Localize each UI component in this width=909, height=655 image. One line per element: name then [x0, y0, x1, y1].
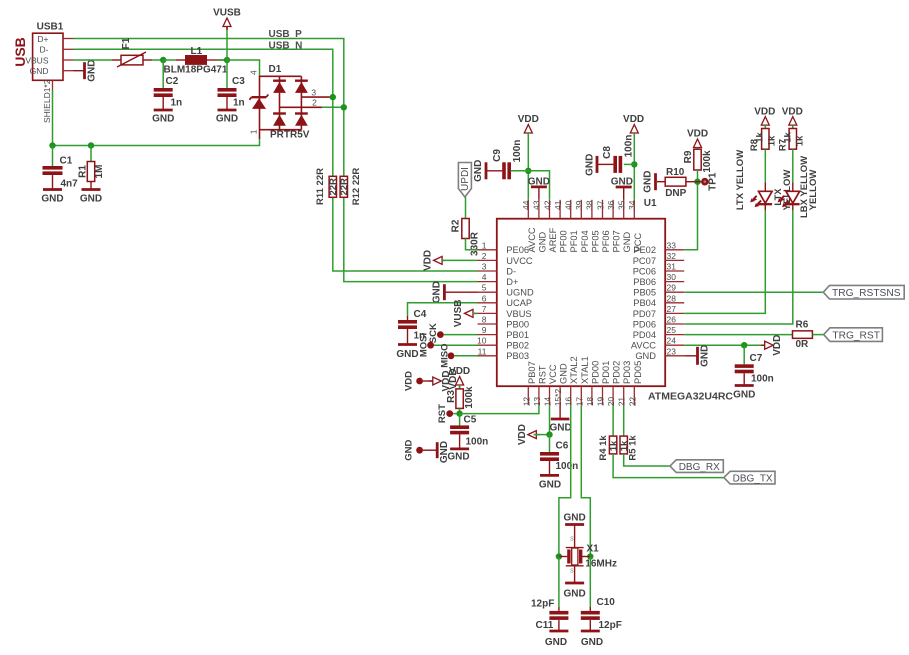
wire MCU pin29 PB05 to TRG_RSTSNS	[684, 291, 823, 293]
svg-text:1k: 1k	[783, 132, 794, 143]
svg-text:GND: GND	[545, 637, 567, 648]
svg-text:2: 2	[312, 97, 317, 107]
svg-text:GND: GND	[539, 480, 561, 491]
svg-text:6: 6	[482, 293, 487, 303]
svg-text:20: 20	[606, 397, 616, 407]
supply source VDD stub with circle	[416, 378, 423, 385]
svg-text:R9: R9	[683, 150, 694, 163]
svg-text:34: 34	[627, 200, 637, 210]
svg-text:GND: GND	[80, 194, 102, 205]
svg-text:GND: GND	[585, 154, 596, 176]
svg-text:BLM18PG471: BLM18PG471	[164, 65, 228, 76]
svg-text:USB1: USB1	[37, 22, 64, 33]
microcontroller U1 ATMEGA32U4RC body	[497, 219, 665, 387]
svg-text:PD03: PD03	[622, 361, 632, 384]
ground left of C8	[596, 156, 599, 173]
svg-text:PD02: PD02	[612, 361, 622, 384]
svg-text:UGND: UGND	[506, 288, 534, 298]
ground below crystal shield	[574, 566, 576, 583]
svg-text:R5 1k: R5 1k	[628, 435, 639, 461]
pin GND of USB1	[63, 70, 74, 72]
svg-text:8: 8	[482, 315, 487, 325]
net stub MISO at MCU pin11	[448, 352, 455, 359]
svg-text:100n: 100n	[512, 140, 523, 163]
svg-text:VDD: VDD	[423, 250, 434, 271]
svg-text:32: 32	[667, 251, 677, 261]
svg-text:GND: GND	[559, 363, 569, 384]
wire R4 to DBG_TX	[613, 454, 724, 478]
wire R9 to MCU pin33 PE02	[684, 170, 697, 250]
ground below C2	[154, 109, 173, 112]
resistor R5 1k	[620, 436, 627, 454]
capacitor C7 100n	[743, 345, 745, 364]
svg-text:R10: R10	[666, 167, 685, 178]
ground below C1	[43, 188, 62, 191]
svg-text:YELLOW: YELLOW	[808, 170, 819, 211]
svg-text:GND: GND	[87, 60, 98, 82]
supply VDD at MCU pin2 UVCC	[442, 259, 446, 261]
wire MCU pin24 AVCC to VDD arrow	[684, 344, 764, 346]
svg-text:AVCC: AVCC	[631, 341, 656, 351]
svg-text:PF05: PF05	[590, 230, 600, 252]
connector USB1 body	[33, 33, 63, 80]
svg-text:38: 38	[585, 200, 595, 210]
svg-text:41: 41	[553, 200, 563, 210]
svg-text:PF06: PF06	[601, 230, 611, 252]
svg-text:X1: X1	[587, 544, 600, 555]
resistor R2 330R	[462, 219, 469, 239]
ground at MCU pin23	[684, 355, 697, 357]
svg-text:USB_P: USB_P	[269, 29, 303, 40]
ground below C6	[540, 474, 559, 477]
svg-text:100n: 100n	[624, 135, 635, 158]
capacitor C8 100n	[613, 156, 617, 173]
capacitor C10 12pF	[589, 557, 591, 608]
svg-text:PB02: PB02	[506, 341, 529, 351]
svg-text:GND: GND	[643, 171, 654, 193]
svg-text:1: 1	[248, 129, 258, 134]
svg-text:7: 7	[482, 304, 487, 314]
svg-text:22: 22	[627, 397, 637, 407]
svg-text:R11 22R: R11 22R	[315, 168, 326, 205]
svg-text:28: 28	[667, 293, 677, 303]
ground below C7	[735, 384, 754, 387]
svg-text:VUSB: VUSB	[213, 8, 241, 19]
svg-text:PB05: PB05	[633, 288, 656, 298]
wire VDD to MCU pin34	[633, 133, 635, 200]
svg-text:PD06: PD06	[633, 319, 656, 329]
svg-text:XTAL1: XTAL1	[580, 356, 590, 384]
ground below C11	[549, 630, 568, 633]
svg-text:C8: C8	[602, 146, 613, 159]
svg-text:L1: L1	[191, 46, 203, 57]
svg-text:AREF: AREF	[548, 227, 558, 252]
test point TP1	[698, 181, 702, 183]
svg-text:C5: C5	[464, 415, 477, 426]
net stub RST	[446, 410, 453, 417]
svg-text:R1: R1	[78, 165, 89, 178]
svg-text:12pF: 12pF	[531, 599, 554, 610]
svg-text:TP1: TP1	[708, 172, 719, 191]
svg-text:15*2: 15*2	[553, 389, 563, 407]
MCU right pins 33-23 with names	[631, 240, 684, 361]
svg-text:16: 16	[564, 397, 574, 407]
svg-text:GND: GND	[622, 232, 632, 253]
svg-text:PB06: PB06	[633, 277, 656, 287]
wire junction to MCU pin42 AREF	[528, 171, 549, 200]
wire RST junction to MCU pin13	[460, 405, 539, 413]
svg-text:SCK: SCK	[428, 323, 439, 343]
ground below C4	[398, 343, 417, 346]
svg-text:GND: GND	[41, 194, 63, 205]
svg-text:10: 10	[477, 336, 487, 346]
wire L1 to VUSB junction	[207, 59, 227, 61]
svg-text:GND: GND	[447, 452, 469, 463]
wire R5 to DBG_RX	[624, 454, 670, 466]
svg-text:U1: U1	[644, 198, 657, 209]
junction at C6	[546, 431, 552, 437]
resistor R9 100k	[697, 148, 699, 150]
junction at VUSB/C3	[224, 57, 230, 63]
svg-text:35: 35	[617, 200, 627, 210]
capacitor C6 100n	[549, 435, 551, 452]
ground above MCU pin35	[623, 187, 625, 200]
svg-text:42: 42	[542, 200, 552, 210]
svg-text:GND: GND	[396, 349, 418, 360]
svg-text:4: 4	[482, 272, 487, 282]
svg-text:0R: 0R	[796, 339, 810, 350]
svg-text:PC06: PC06	[633, 266, 656, 276]
ground at MCU pin5 UGND	[444, 291, 477, 293]
resistor R6 0R	[793, 331, 813, 339]
ground left of C9	[485, 162, 488, 179]
svg-text:30: 30	[667, 272, 677, 282]
junction RST	[456, 410, 462, 416]
svg-text:22R: 22R	[339, 178, 350, 196]
net flag DBG_RX	[670, 460, 723, 473]
net stub SCK at MCU pin9	[437, 331, 444, 338]
svg-text:PF01: PF01	[569, 230, 579, 252]
svg-text:C10: C10	[597, 597, 616, 608]
junction crystal left	[556, 553, 562, 559]
svg-text:26: 26	[667, 315, 677, 325]
svg-text:USB_N: USB_N	[269, 40, 303, 51]
pin D- of USB1	[63, 48, 74, 50]
svg-text:PE06: PE06	[506, 245, 529, 255]
svg-text:25: 25	[667, 325, 677, 335]
svg-text:29: 29	[667, 283, 677, 293]
svg-text:VDD: VDD	[772, 335, 783, 356]
svg-text:D+: D+	[506, 277, 518, 287]
junction D1 pin2 / USB_P	[341, 104, 347, 110]
net flag UPDI	[458, 163, 471, 198]
svg-text:VCC: VCC	[548, 364, 558, 384]
svg-text:18: 18	[585, 397, 595, 407]
svg-text:GND: GND	[404, 440, 415, 461]
capacitor C9 100n	[502, 162, 506, 179]
svg-text:100k: 100k	[464, 386, 475, 409]
junction at C1	[49, 142, 55, 148]
pin VBUS of USB1	[63, 59, 74, 61]
svg-text:VDD: VDD	[782, 107, 803, 118]
resistor R10 DNP	[686, 181, 698, 183]
junction at C8	[631, 161, 637, 167]
wire USB_P from D+ to D1 pin2 and down to MCU D+	[74, 39, 478, 282]
svg-text:R2: R2	[451, 219, 462, 232]
svg-text:MISO: MISO	[440, 343, 451, 367]
svg-text:13: 13	[532, 397, 542, 407]
wire MCU pin21 PD03 to R5	[623, 405, 625, 436]
capacitor C3 1n	[226, 60, 228, 88]
svg-text:PRTR5V: PRTR5V	[270, 130, 310, 141]
svg-text:14: 14	[543, 397, 553, 407]
svg-text:44: 44	[521, 200, 531, 210]
resistor R12 22R on USB_P	[340, 176, 347, 197]
wire MCU pin25 PD04 to R6	[684, 334, 792, 336]
MCU top pins 44-34 with names	[521, 200, 643, 253]
svg-text:12: 12	[521, 397, 531, 407]
svg-text:PB01: PB01	[506, 330, 529, 340]
capacitor C11 12pF	[558, 557, 560, 608]
supply source GND stub with circle	[416, 447, 423, 454]
svg-text:C11: C11	[536, 620, 554, 631]
svg-text:PB03: PB03	[506, 351, 529, 361]
svg-text:PD01: PD01	[601, 361, 611, 384]
svg-text:XTAL2: XTAL2	[569, 356, 579, 384]
ground below R1	[82, 188, 101, 191]
svg-text:GND: GND	[700, 345, 711, 367]
svg-text:4n7: 4n7	[61, 179, 79, 190]
wire shield to ground bus	[53, 90, 260, 146]
svg-text:330R: 330R	[470, 231, 481, 256]
wire VDD arrow to junction to pin14	[534, 434, 550, 436]
svg-text:GND: GND	[30, 66, 49, 76]
svg-text:DNP: DNP	[665, 188, 686, 199]
svg-text:GND: GND	[528, 177, 550, 188]
ground below C10	[581, 630, 600, 633]
svg-text:D-: D-	[40, 45, 49, 55]
svg-text:PD07: PD07	[633, 309, 656, 319]
svg-text:PD00: PD00	[590, 361, 600, 384]
net flag TRG_RSTSNS	[823, 285, 904, 299]
svg-text:AVCC: AVCC	[527, 227, 537, 252]
wire MCU pin16 XTAL2 to crystal left	[559, 405, 571, 556]
ground above crystal shield	[574, 525, 576, 548]
svg-text:12pF: 12pF	[599, 620, 622, 631]
svg-text:D1: D1	[269, 64, 282, 75]
wire R8 to LED	[764, 149, 766, 182]
svg-text:R6: R6	[796, 320, 809, 331]
svg-text:4: 4	[248, 70, 258, 75]
svg-text:GND: GND	[216, 114, 238, 125]
svg-text:PC07: PC07	[633, 256, 656, 266]
svg-text:GND: GND	[432, 281, 443, 303]
capacitor C5 100n	[459, 414, 461, 426]
wire R2 to MCU pin1	[466, 239, 478, 250]
wire USB_N from D- to D1 pin3 and down to MCU D-	[74, 49, 478, 271]
capacitor C2 1n	[162, 60, 164, 88]
resistor R8 1k	[764, 125, 766, 128]
svg-text:1n: 1n	[233, 98, 245, 109]
svg-text:C4: C4	[414, 309, 427, 320]
junction at C9	[525, 168, 531, 174]
svg-text:9: 9	[482, 325, 487, 335]
svg-text:33: 33	[667, 240, 677, 250]
wire D1 pin3 to USB_N	[331, 96, 333, 98]
svg-text:1k: 1k	[609, 440, 620, 451]
svg-text:VDD: VDD	[623, 114, 644, 125]
svg-text:D-: D-	[506, 266, 516, 276]
svg-text:F1: F1	[121, 37, 132, 49]
wire VDD rail to MCU pin44 AVCC	[527, 133, 529, 200]
svg-text:RST: RST	[437, 404, 448, 423]
svg-text:RST: RST	[537, 365, 547, 384]
resistor R1 1M	[90, 146, 92, 162]
svg-text:100k: 100k	[702, 150, 713, 173]
LED LED1 LTX YELLOW	[764, 183, 766, 192]
svg-text:1M: 1M	[94, 165, 105, 179]
svg-text:1k: 1k	[766, 135, 777, 146]
svg-text:17: 17	[574, 397, 584, 407]
svg-text:UCAP: UCAP	[506, 298, 532, 308]
net flag DBG_TX	[724, 471, 775, 484]
svg-text:3: 3	[482, 262, 487, 272]
wire VDD arrow to pin2	[442, 259, 477, 261]
wire MCU pin20 PD02 to R4	[612, 405, 614, 436]
ferrite bead L1 BLM18PG471	[185, 55, 207, 65]
svg-text:VUSB: VUSB	[453, 300, 464, 328]
resistor R11 22R on USB_N	[329, 176, 336, 197]
svg-text:C1: C1	[60, 156, 73, 167]
svg-text:1k: 1k	[795, 135, 806, 146]
svg-text:UPDI: UPDI	[460, 167, 471, 191]
svg-text:DBG_RX: DBG_RX	[679, 462, 720, 473]
MCU bottom pins 12-22 with names	[521, 356, 643, 406]
svg-text:GND: GND	[563, 589, 585, 600]
svg-text:GND: GND	[537, 232, 547, 253]
svg-text:DBG_TX: DBG_TX	[733, 474, 773, 485]
svg-text:PB00: PB00	[506, 319, 529, 329]
svg-text:23: 23	[667, 346, 677, 356]
svg-text:VDD: VDD	[517, 424, 528, 445]
svg-text:PD05: PD05	[633, 361, 643, 384]
svg-text:VDD: VDD	[404, 371, 415, 391]
wire MCU pin17 XTAL1 to crystal right	[581, 405, 590, 556]
svg-text:31: 31	[667, 262, 677, 272]
svg-text:PF04: PF04	[580, 230, 590, 252]
ground at MCU pin15	[559, 405, 561, 419]
wire R3 to RST junction	[459, 408, 461, 413]
svg-text:ATMEGA32U4RC: ATMEGA32U4RC	[648, 391, 733, 403]
svg-text:GND: GND	[473, 160, 484, 182]
LED LED2 LBX YELLOW	[792, 183, 794, 192]
svg-text:11: 11	[478, 346, 487, 356]
net flag TRG_RST	[824, 328, 883, 342]
wire MCU pin6 UCAP to C4	[408, 303, 478, 316]
crystal X1 16MHz	[559, 548, 590, 566]
svg-text:1k: 1k	[754, 132, 765, 143]
wire D1 pin2 to USB_P	[322, 106, 344, 108]
svg-text:R3: R3	[446, 390, 457, 403]
svg-text:GND: GND	[563, 513, 585, 524]
svg-text:MOSI: MOSI	[419, 333, 430, 357]
svg-text:2: 2	[482, 251, 487, 261]
svg-text:VBUS: VBUS	[25, 55, 48, 65]
resistor R3 100k	[459, 385, 461, 389]
ground below C3	[218, 109, 237, 112]
supply VUSB arrow	[226, 27, 228, 61]
svg-text:s: s	[570, 534, 574, 543]
svg-text:GND: GND	[152, 114, 174, 125]
MCU left pins 1-11 with names	[477, 240, 534, 361]
svg-text:C2: C2	[166, 76, 179, 87]
svg-text:GND: GND	[635, 351, 656, 361]
wire junction to D1 pin4	[227, 60, 260, 76]
svg-text:PF00: PF00	[559, 230, 569, 252]
svg-text:PD04: PD04	[633, 330, 656, 340]
junction at R1	[88, 142, 94, 148]
svg-text:PB07: PB07	[527, 361, 537, 384]
svg-text:PB04: PB04	[633, 298, 656, 308]
svg-text:D+: D+	[37, 34, 48, 44]
svg-text:C6: C6	[556, 441, 569, 452]
svg-text:3: 3	[311, 87, 316, 97]
ground above MCU pin43	[538, 187, 540, 200]
supply VDD at MCU pin14 VCC	[536, 434, 540, 436]
svg-text:27: 27	[667, 304, 677, 314]
wire junction to L1	[163, 59, 176, 61]
ground below C5	[450, 447, 469, 450]
junction R9/R10/TP1	[694, 179, 700, 185]
wire R6 to TRG_RST	[812, 334, 823, 336]
svg-text:100n: 100n	[466, 437, 489, 448]
svg-text:TRG_RSTSNS: TRG_RSTSNS	[832, 288, 901, 299]
resistor R7 1k	[792, 125, 794, 128]
ground left of R10	[657, 181, 665, 183]
wire LED2 to MCU pin26 PD06	[684, 211, 793, 324]
net stub MOSI at MCU pin10	[427, 342, 434, 349]
svg-text:GND: GND	[581, 637, 603, 648]
junction at C7	[741, 342, 747, 348]
svg-text:19: 19	[596, 397, 606, 407]
svg-text:GND: GND	[733, 390, 755, 401]
svg-text:43: 43	[532, 200, 542, 210]
svg-text:24: 24	[667, 336, 677, 346]
svg-text:39: 39	[574, 200, 584, 210]
svg-text:21: 21	[617, 397, 627, 407]
svg-text:GND: GND	[611, 177, 633, 188]
wire R7 to LED	[792, 149, 794, 182]
svg-text:100n: 100n	[751, 374, 774, 385]
svg-text:1: 1	[482, 240, 487, 250]
pin D+ of USB1	[63, 38, 74, 40]
capacitor C1 4n7	[52, 146, 54, 167]
svg-text:LTX YELLOW: LTX YELLOW	[735, 150, 746, 210]
junction D1 pin3 / USB_N	[330, 94, 336, 100]
svg-text:VBUS: VBUS	[506, 309, 531, 319]
wire LED1 to MCU pin27 PD07	[684, 211, 765, 314]
svg-text:C3: C3	[232, 76, 245, 87]
svg-text:SHIELD1*2: SHIELD1*2	[42, 79, 52, 123]
ground symbol at USB1 GND pin	[74, 70, 85, 72]
svg-text:5: 5	[482, 283, 487, 293]
wire UPDI to R2	[465, 197, 467, 219]
svg-text:s: s	[570, 566, 574, 575]
svg-text:1n: 1n	[171, 98, 183, 109]
svg-text:C7: C7	[750, 353, 763, 364]
svg-text:100n: 100n	[556, 461, 579, 472]
supply VUSB at MCU pin7 VBUS	[473, 312, 477, 314]
